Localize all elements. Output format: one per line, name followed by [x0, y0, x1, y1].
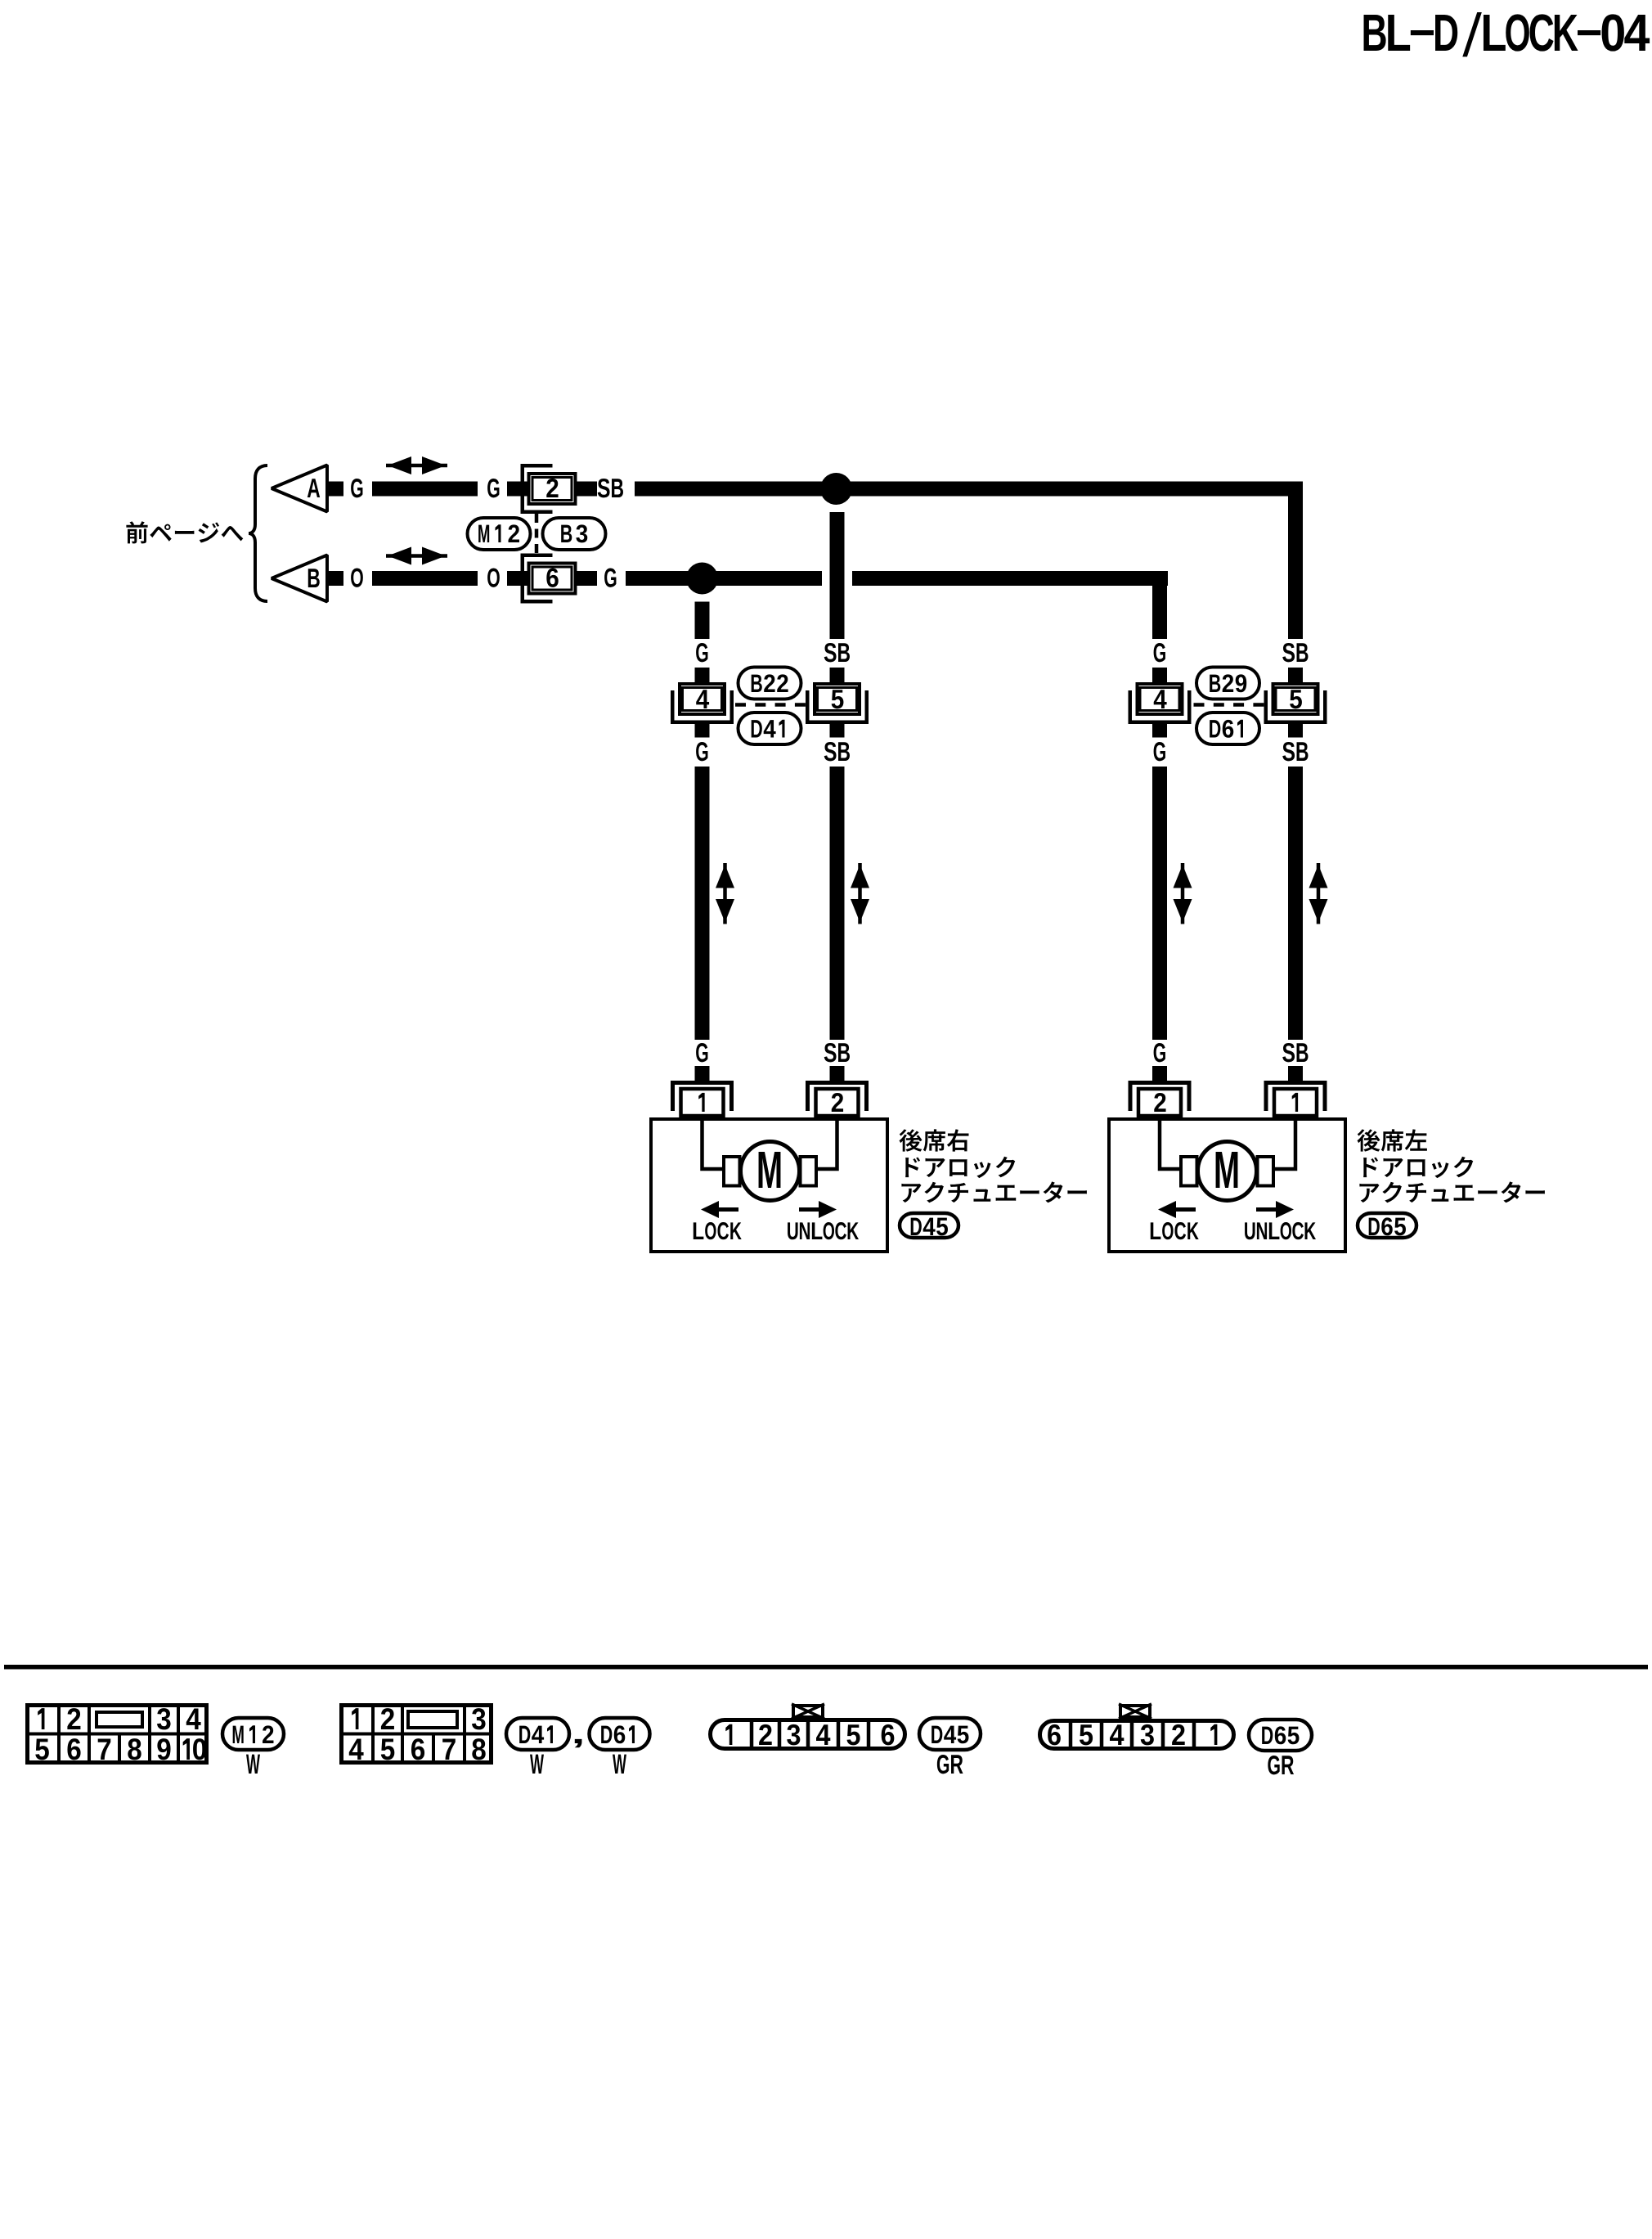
- label LOCK: [1151, 1222, 1199, 1239]
- LOCK arrow: [701, 1201, 719, 1218]
- wire color label G: [487, 479, 499, 497]
- wire color label SB: [824, 742, 850, 761]
- wire from node A: [327, 482, 343, 497]
- connector label M12: [468, 518, 531, 550]
- comma: [575, 1739, 582, 1747]
- wire color label G: [696, 742, 707, 761]
- long vertical wire SB: [1288, 767, 1303, 1040]
- inline connector pin 4: [671, 684, 734, 724]
- separator line: [4, 1665, 1648, 1670]
- wire segment A1: [372, 482, 478, 497]
- wire stub into actuator pin: [1288, 1066, 1303, 1081]
- wire stub into connector M12 pin 6: [507, 571, 527, 586]
- actuator connector pin 2: [1129, 1081, 1192, 1116]
- connector label D65: [1249, 1720, 1312, 1751]
- junction dot on wire A: [820, 473, 852, 505]
- vertical wire SB (right) corner from wire A: [1288, 482, 1303, 640]
- internal wire from right pin to motor: [816, 1119, 837, 1169]
- wire color label O: [351, 568, 363, 587]
- label 前ページへ (to previous page): [126, 521, 243, 543]
- dashed connector separator: [735, 703, 806, 707]
- vertical wire G (right) corner from wire B: [1152, 571, 1167, 639]
- junction dot on wire B: [686, 563, 718, 595]
- internal wire from left pin to motor: [703, 1119, 725, 1169]
- actuator connector pin 1: [1264, 1081, 1327, 1116]
- wire stub below connector: [1152, 724, 1167, 738]
- wire stub: [1152, 668, 1167, 683]
- connector face view D41/D61: [339, 1703, 493, 1765]
- wire color label G: [1154, 742, 1165, 761]
- bidirectional arrow: [386, 456, 447, 474]
- actuator connector pin 1: [671, 1081, 734, 1116]
- brace: [249, 465, 267, 601]
- bidirectional arrow: [1309, 863, 1328, 924]
- wire color label SB: [1282, 742, 1308, 761]
- connector face view D65: [1040, 1704, 1234, 1749]
- motor right terminal: [1258, 1157, 1274, 1186]
- label LOCK: [694, 1222, 742, 1239]
- motor M: [741, 1142, 800, 1201]
- bidirectional arrow: [1174, 863, 1192, 924]
- wire stub below connector: [830, 724, 845, 738]
- wire color label G: [696, 643, 707, 662]
- wire stub into actuator pin: [1152, 1066, 1167, 1081]
- connector label B29: [1196, 668, 1259, 699]
- wire segment B1: [372, 571, 478, 586]
- title BL-D/LOCK-04: [1364, 12, 1650, 56]
- wire color label SB: [1282, 643, 1308, 662]
- connector label D61: [1196, 713, 1259, 744]
- actuator connector pin 2: [806, 1081, 869, 1116]
- door lock actuator box: [1109, 1119, 1345, 1252]
- inline connector pin 5: [1264, 684, 1327, 724]
- motor right terminal: [801, 1157, 817, 1186]
- wire color label SB: [824, 1043, 850, 1062]
- connector label D45: [900, 1213, 958, 1238]
- wire from node B: [327, 571, 343, 586]
- wire segment B3 (G) to right corner: [852, 571, 1168, 586]
- color label GR: [937, 1755, 963, 1774]
- UNLOCK arrow: [799, 1207, 819, 1212]
- wire stub: [830, 668, 845, 683]
- wire stub below connector: [1288, 724, 1303, 738]
- node A (from previous page): [272, 465, 327, 512]
- motor left terminal: [724, 1157, 740, 1186]
- connector face view D45: [711, 1704, 905, 1749]
- wire stub below connector: [695, 724, 710, 738]
- motor M: [1198, 1142, 1257, 1201]
- connector label M12: [222, 1718, 284, 1750]
- actuator name text: [900, 1129, 1087, 1203]
- inline connector pin 5: [806, 684, 869, 724]
- color label W: [530, 1755, 544, 1774]
- wire color label G: [577, 568, 616, 587]
- color label GR: [1268, 1756, 1294, 1774]
- bidirectional arrow: [716, 863, 734, 924]
- connector M12/B3 pin 6: [521, 554, 576, 604]
- connector label D41: [738, 713, 801, 744]
- wire color label G: [1154, 1043, 1165, 1062]
- label UNLOCK: [788, 1222, 859, 1239]
- actuator name text: [1358, 1129, 1545, 1203]
- wire color label G: [696, 1043, 707, 1062]
- dashed connector separator: [1194, 703, 1264, 707]
- wire color label SB: [1282, 1043, 1308, 1062]
- long vertical wire G: [1152, 767, 1167, 1040]
- door lock actuator box: [651, 1119, 887, 1252]
- wire segment B2 (G): [626, 571, 822, 586]
- bidirectional arrow: [386, 547, 447, 565]
- wire stub: [695, 668, 710, 683]
- long vertical wire SB: [830, 767, 845, 1040]
- wire stub into actuator pin: [695, 1066, 710, 1081]
- internal wire from left pin to motor: [1160, 1119, 1182, 1169]
- connector face view M12: [25, 1703, 209, 1765]
- inline connector pin 4: [1129, 684, 1192, 724]
- bidirectional arrow: [851, 863, 869, 924]
- vertical wire SB (left) from junction: [830, 512, 845, 639]
- long vertical wire G: [695, 767, 710, 1040]
- connector label D65: [1358, 1213, 1416, 1238]
- wire color label SB: [577, 479, 623, 497]
- connector label D45: [919, 1718, 981, 1750]
- vertical wire G (left) from junction: [695, 602, 710, 640]
- connector label B22: [738, 668, 801, 699]
- connector label B3: [543, 518, 606, 550]
- UNLOCK arrow: [1256, 1207, 1276, 1212]
- dashed connector separator: [535, 514, 539, 553]
- motor left terminal: [1181, 1157, 1197, 1186]
- wire color label O: [487, 568, 500, 587]
- node B (from previous page): [272, 555, 327, 602]
- wire color label G: [351, 479, 362, 497]
- connector M12/B3 pin 2: [521, 464, 576, 514]
- wire segment A2 (SB) to right corner: [635, 482, 1303, 497]
- wire color label SB: [824, 643, 850, 662]
- LOCK arrow: [1158, 1201, 1176, 1218]
- wire stub: [1288, 668, 1303, 683]
- connector label D41: [506, 1718, 569, 1750]
- connector label D61: [590, 1718, 650, 1750]
- wire stub into connector M12 pin 2: [507, 482, 527, 497]
- color label W: [246, 1755, 260, 1774]
- internal wire from right pin to motor: [1273, 1119, 1296, 1169]
- wire stub into actuator pin: [830, 1066, 845, 1081]
- label UNLOCK: [1245, 1222, 1316, 1239]
- color label W: [613, 1755, 626, 1774]
- wire color label G: [1154, 643, 1165, 662]
